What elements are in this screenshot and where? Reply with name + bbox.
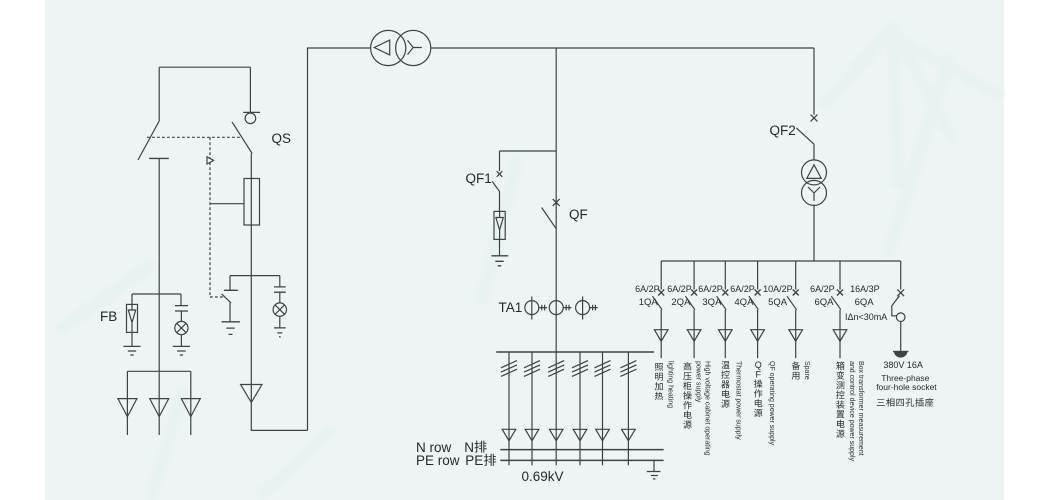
svg-text:Q: Q	[755, 360, 762, 370]
svg-text:F: F	[755, 370, 761, 380]
